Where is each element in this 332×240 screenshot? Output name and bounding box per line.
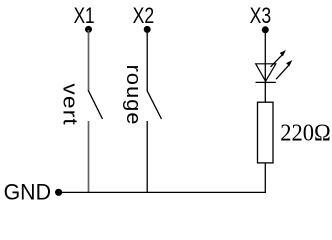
switch S1 blade [88, 90, 102, 119]
LED D1 triangle [256, 64, 276, 82]
svg-text:X2: X2 [133, 3, 155, 28]
terminal dot X3 [262, 26, 269, 33]
LED D1 emission arrow 1 [271, 50, 286, 67]
switch S2 blade [147, 90, 162, 119]
wire X1 top [88, 30, 90, 91]
wire X2 bottom [146, 121, 148, 193]
svg-text:X1: X1 [74, 3, 95, 28]
GND node dot [55, 189, 62, 196]
LED D1 cathode bar [256, 81, 276, 83]
wire X3 [264, 30, 266, 102]
ground rail wire [59, 191, 266, 193]
resistor R1 body [258, 102, 274, 163]
wire resistor to ground rail [264, 163, 266, 193]
svg-text:vert: vert [58, 83, 80, 126]
LED D1 emission arrow 2 [276, 60, 292, 79]
svg-text:220Ω: 220Ω [280, 119, 331, 146]
svg-text:X3: X3 [250, 3, 272, 28]
wire X1 bottom [88, 121, 90, 192]
svg-text:rouge: rouge [122, 65, 144, 126]
terminal dot X2 [144, 26, 151, 33]
wire X2 top [146, 30, 148, 91]
terminal dot X1 [85, 26, 92, 33]
svg-text:GND: GND [4, 179, 51, 204]
